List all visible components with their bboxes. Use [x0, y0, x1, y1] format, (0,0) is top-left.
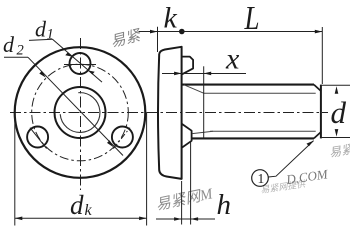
dk dimension line — [15, 217, 147, 219]
top hole horizontal centerline tick — [64, 64, 96, 66]
dimension h extension left — [181, 181, 183, 225]
hole lower-right — [112, 127, 133, 148]
d arrow down — [335, 129, 339, 137]
dk arrow right — [139, 217, 147, 221]
thread minor line top — [204, 92, 316, 94]
collar above shank — [182, 57, 193, 75]
x arrow left (outside) — [174, 72, 182, 76]
watermark 1 — [109, 27, 144, 51]
L extension line — [321, 27, 323, 84]
watermark 5 — [260, 179, 307, 195]
hole top d1 — [70, 53, 91, 74]
dimension h line — [156, 218, 215, 220]
dk extension line left — [14, 113, 16, 226]
full-thread boundary vertical line — [203, 66, 205, 138]
svg-text:易紧网提供: 易紧网提供 — [260, 179, 307, 195]
flange outer circle dk — [15, 47, 146, 178]
balloon leader — [268, 141, 313, 177]
svg-text:x: x — [225, 43, 240, 76]
watermark 4 — [328, 142, 350, 160]
svg-text:2: 2 — [17, 43, 24, 59]
lower-left hole diagonal tick — [30, 128, 47, 149]
svg-text:d: d — [3, 32, 15, 57]
svg-text:k: k — [164, 1, 178, 34]
svg-text:1: 1 — [47, 27, 54, 43]
dk arrow left — [15, 217, 22, 221]
svg-text:L: L — [244, 0, 260, 37]
lower-right hole diagonal tick (dash-dot) — [113, 128, 130, 149]
svg-text:d: d — [35, 17, 47, 42]
dimension x line — [162, 73, 246, 75]
svg-text:h: h — [217, 189, 232, 221]
h arrow left (outside) — [174, 217, 182, 221]
svg-text:易紧: 易紧 — [328, 142, 350, 160]
dimension d2 leader underline — [4, 56, 28, 58]
centerline vertical (front view) — [80, 38, 82, 190]
d1 arrow upper-left — [65, 53, 72, 57]
thread minor arc (3/4 thin circle) — [60, 93, 100, 133]
chamfer bottom — [314, 132, 321, 139]
d2 arrow upper-left — [39, 71, 46, 78]
head circle (shank major dia) — [55, 87, 106, 138]
dimension d1 leader underline — [29, 39, 53, 40]
nib below shank — [182, 124, 192, 148]
shank top line (major dia) — [182, 84, 314, 86]
k/L junction dot — [179, 29, 185, 35]
dimension k line with outside tail — [139, 31, 182, 33]
svg-text:易紧: 易紧 — [109, 27, 144, 51]
svg-text:易紧网M: 易紧网M — [154, 185, 215, 214]
dk extension line right — [146, 113, 148, 226]
svg-text:1: 1 — [258, 171, 265, 186]
chamfer top — [314, 85, 321, 92]
svg-text:d: d — [331, 95, 347, 130]
shank bottom line (major dia) — [192, 137, 314, 139]
d2 arrow lower-right — [107, 140, 114, 147]
dimension d extension top — [322, 84, 350, 86]
thread runout diagonal top — [184, 85, 204, 93]
d arrow up — [335, 86, 339, 94]
h arrow right (outside) — [191, 217, 199, 221]
watermark 3 — [284, 166, 329, 187]
dimension d1 diagonal line — [53, 39, 103, 82]
watermark 2 — [154, 185, 215, 214]
svg-text:d: d — [70, 190, 84, 220]
d1 arrow lower-right — [88, 70, 95, 74]
shank end face — [320, 85, 322, 139]
svg-text:k: k — [85, 202, 93, 219]
thread minor line bottom — [210, 130, 316, 132]
dimension d extension bottom — [322, 137, 350, 139]
k arrow — [150, 30, 158, 34]
x arrow right (outside) — [204, 72, 212, 76]
balloon 1 circle — [252, 170, 269, 187]
dimension L line — [182, 31, 322, 33]
dimension k extension line — [157, 27, 159, 52]
dimension d2 diagonal line — [28, 57, 123, 155]
thread runout diagonal bottom — [192, 131, 213, 133]
bolt circle d2 (dash-dot) — [32, 64, 129, 161]
flange (disc) outline — [158, 47, 182, 179]
balloon leader arrow — [307, 141, 314, 147]
L arrow — [315, 30, 323, 34]
centerline horizontal (both views) — [10, 112, 328, 114]
dimension h extension right — [190, 142, 192, 225]
hole lower-left — [27, 127, 48, 148]
